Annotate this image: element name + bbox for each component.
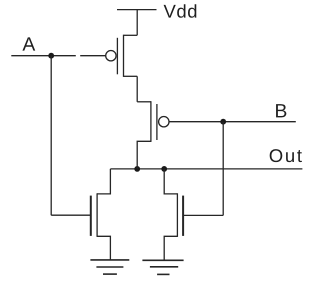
pmos M1 channel [123, 35, 125, 77]
pmos M1 drain lead [124, 75, 138, 77]
pmos M1 source lead [124, 34, 138, 36]
nmos M4 drain lead [164, 169, 177, 194]
wire input A segment 2 [80, 55, 105, 57]
ground symbol left [90, 260, 129, 274]
pmos M2 channel [150, 101, 152, 142]
pmos M1 gate bar [116, 38, 118, 75]
pmos M1 gate bubble [106, 51, 116, 61]
node junction dot pmos drain / Out [134, 166, 140, 172]
nmos M4 channel [176, 193, 178, 237]
pmos M2 gate bubble [159, 117, 169, 127]
label A [22, 37, 35, 50]
wire B vertical to nmos M4 gate [222, 122, 224, 216]
nmos M4 gate bar [182, 196, 184, 236]
nmos M3 gate bar [90, 196, 92, 236]
nmos M3 channel [96, 193, 98, 237]
nmos M3 drain lead [97, 169, 110, 194]
wire input B [169, 121, 295, 123]
pmos M2 source lead [137, 101, 151, 103]
pmos M2 gate bar [156, 104, 158, 140]
nmos M3 source lead [97, 236, 110, 259]
node A junction dot [48, 53, 54, 59]
wire input A segment 1 [11, 55, 76, 57]
pmos M2 drain lead [137, 141, 151, 169]
node B junction dot [220, 119, 226, 125]
wire nmos M4 gate lead [183, 214, 223, 216]
label B [276, 104, 286, 117]
label Vdd [164, 4, 197, 18]
wire nmos M3 gate lead [51, 214, 90, 216]
nmos M4 source lead [164, 236, 177, 260]
node junction dot nmos M4 drain / Out [161, 166, 167, 172]
wire Vdd stem [136, 10, 138, 36]
ground symbol right [142, 260, 183, 274]
wire pmos M1 drain to pmos M2 source [136, 76, 138, 102]
label Out [270, 149, 302, 162]
Vdd rail [117, 9, 157, 11]
wire Out horizontal [110, 168, 302, 170]
wire A vertical to nmos M3 gate [50, 56, 52, 216]
